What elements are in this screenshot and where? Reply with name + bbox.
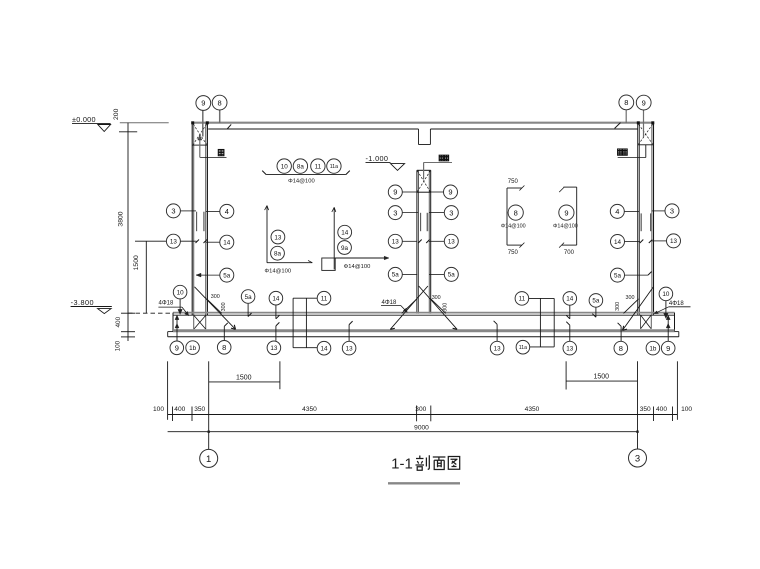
- callout 8 top slab left: [219, 110, 221, 123]
- dim 1500 vertical line: [145, 241, 147, 313]
- tick 400R: [672, 407, 674, 422]
- svg-text:350: 350: [194, 406, 205, 413]
- top slab bottom line left span: [208, 128, 418, 130]
- tick 300 right: [430, 406, 432, 422]
- callout 13 left wall outer: [135, 240, 166, 242]
- svg-text:8a: 8a: [297, 163, 305, 170]
- left wall bottom anchorage box: [193, 315, 195, 329]
- blinding layer right edge: [678, 332, 680, 337]
- dim tick 200: [119, 131, 137, 133]
- extension line far right: [676, 361, 678, 420]
- title underline: [388, 482, 460, 484]
- top slab top chord (heavy grey): [192, 122, 654, 124]
- svg-text:3: 3: [635, 453, 640, 464]
- right wall top ring-beam box: [638, 144, 654, 146]
- callout 1b base bottom left: [186, 341, 200, 355]
- callout 5a above base left: [241, 290, 255, 304]
- leader bar 13 mid-left: [348, 325, 350, 342]
- svg-text:14: 14: [341, 229, 349, 236]
- right wall bottom anchorage box: [640, 315, 642, 329]
- svg-text:3: 3: [670, 207, 674, 216]
- svg-text:11a: 11a: [330, 164, 338, 170]
- leader bar 5a right: [595, 308, 597, 318]
- svg-text:14: 14: [320, 345, 328, 352]
- svg-text:9: 9: [393, 188, 397, 197]
- callout 4 left wall inner: [206, 210, 220, 212]
- svg-text:100: 100: [153, 406, 164, 413]
- right wall inner face lines: [637, 123, 639, 315]
- svg-text:14: 14: [566, 296, 574, 303]
- svg-text:11: 11: [321, 295, 328, 302]
- vertical dimension line: [127, 123, 129, 341]
- tick 300 left: [416, 406, 418, 422]
- dim row first: line: [168, 414, 678, 416]
- svg-text:3: 3: [393, 208, 397, 217]
- dashed level line -3.800: [128, 312, 173, 314]
- dim tick 400: [121, 331, 135, 333]
- svg-text:200: 200: [113, 108, 120, 120]
- dim row second: 9000 line: [168, 431, 638, 433]
- svg-text:1b: 1b: [649, 345, 657, 352]
- callout 13 base bottom left-mid2: [342, 341, 356, 355]
- svg-text:13: 13: [170, 238, 178, 245]
- callout 5a above base right: [589, 294, 603, 308]
- svg-text:9000: 9000: [414, 424, 429, 431]
- callout 13 right wall outer: [652, 240, 667, 242]
- svg-text:300: 300: [221, 302, 227, 311]
- svg-text:-3.800: -3.800: [71, 298, 94, 307]
- callout 3 left wall outer: [180, 210, 196, 212]
- leader bar 9 left: [176, 318, 178, 342]
- svg-text:Φ14@100: Φ14@100: [264, 269, 291, 275]
- svg-text:300: 300: [626, 295, 635, 301]
- svg-text:9: 9: [666, 344, 670, 353]
- svg-text:750: 750: [508, 250, 519, 256]
- svg-text:5a: 5a: [592, 298, 600, 305]
- svg-text:3: 3: [449, 208, 453, 217]
- svg-text:1-1: 1-1: [391, 455, 413, 472]
- svg-text:9: 9: [201, 99, 205, 108]
- left wall inner face lines: [205, 145, 207, 315]
- svg-text:5a: 5a: [392, 272, 400, 279]
- svg-text:13: 13: [494, 345, 502, 352]
- callout 13 base bottom right-mid: [490, 341, 504, 355]
- callout 14 left wall inner: [206, 241, 220, 243]
- svg-text:14: 14: [223, 239, 231, 246]
- callout 14 right wall inner: [625, 241, 641, 243]
- svg-text:350: 350: [640, 406, 651, 413]
- top slab downstand beam above middle wall: [418, 129, 420, 145]
- callout 1b base bottom right: [646, 341, 660, 355]
- grid bubble 1: [200, 449, 218, 467]
- svg-text:13: 13: [448, 239, 456, 246]
- base slab bottom heavy grey band: [173, 329, 675, 332]
- svg-text:Φ14@100: Φ14@100: [288, 178, 315, 184]
- callout 13 base bottom right-mid2: [563, 341, 577, 355]
- slab bar bend mark right: [615, 123, 621, 129]
- leader bar 14 left-top: [275, 305, 277, 319]
- detail bar 13/8a L-shape: [266, 206, 268, 263]
- callout 5a left wall: [196, 274, 220, 276]
- left wall top ring-beam box: [193, 124, 195, 146]
- grid bubble 3: [629, 449, 647, 467]
- svg-text:9: 9: [175, 344, 179, 353]
- svg-text:Φ14@100: Φ14@100: [344, 264, 371, 270]
- svg-text:8: 8: [222, 343, 226, 352]
- svg-text:8: 8: [619, 344, 623, 353]
- svg-text:8: 8: [514, 208, 518, 217]
- base slab right edge: [674, 313, 676, 332]
- detail bar 14/9a with foot: [333, 207, 335, 269]
- svg-text:4: 4: [615, 207, 619, 216]
- svg-text:400: 400: [656, 406, 667, 413]
- callout 10 base left corner: [179, 299, 181, 311]
- svg-text:11: 11: [315, 163, 322, 170]
- left wall haunch: [207, 299, 222, 314]
- dim 1500 bottom-left: [209, 381, 280, 383]
- middle wall bar strokes: [420, 213, 422, 231]
- base slab left edge: [172, 313, 174, 332]
- ring beam label right wall: [618, 149, 622, 155]
- callout 8 base bottom right: [614, 341, 628, 355]
- dim 1500 bottom-right: [566, 380, 637, 382]
- callout 13 base bottom left: [267, 341, 281, 355]
- ring beam label left wall: [218, 150, 224, 156]
- svg-text:4: 4: [225, 207, 229, 216]
- callout 13 middle wall right: [429, 240, 444, 242]
- svg-text:1: 1: [206, 454, 211, 465]
- svg-text:10: 10: [662, 291, 670, 298]
- svg-text:11: 11: [519, 296, 526, 303]
- right corner diagonal bar: [623, 287, 654, 330]
- svg-text:300: 300: [442, 303, 448, 312]
- svg-text:300: 300: [432, 295, 441, 301]
- svg-text:13: 13: [274, 234, 282, 241]
- ring beam label middle wall: [439, 155, 443, 161]
- callout 9 middle wall right: [431, 191, 444, 193]
- callout 3 right wall outer: [652, 210, 666, 212]
- svg-text:9a: 9a: [341, 245, 349, 252]
- svg-text:5a: 5a: [614, 272, 622, 279]
- base slab top thin line: [173, 314, 675, 316]
- svg-text:1500: 1500: [594, 374, 610, 381]
- middle wall right diagonal bar: [419, 286, 457, 329]
- left wall outer face lines: [191, 123, 193, 316]
- leader bar 9 right: [667, 318, 669, 342]
- callout 8 top slab right: [625, 110, 627, 123]
- right wall haunch: [624, 299, 639, 314]
- callout 14 above base left: [269, 291, 283, 305]
- svg-text:13: 13: [392, 239, 400, 246]
- callout 9 base bottom far-left: [170, 341, 184, 355]
- callout 9 right wall top: [643, 110, 645, 137]
- middle wall left haunch: [402, 299, 417, 314]
- callout 5a middle wall right: [430, 273, 445, 275]
- svg-text:4350: 4350: [525, 406, 540, 413]
- svg-text:10: 10: [281, 163, 289, 170]
- middle wall left diagonal bar: [390, 286, 428, 329]
- svg-text:4Φ18: 4Φ18: [669, 301, 684, 307]
- callout 9 base bottom far-right: [661, 341, 675, 355]
- svg-text:400: 400: [115, 316, 122, 327]
- level extension line top: [120, 122, 169, 124]
- leader bar 13 right-bottom: [569, 325, 571, 341]
- svg-text:13: 13: [346, 345, 354, 352]
- svg-text:5a: 5a: [245, 294, 253, 301]
- callout row 10 8a 11 11a for top slab: [277, 159, 291, 173]
- svg-text:13: 13: [670, 238, 678, 245]
- base slab top heavy grey line: [173, 312, 675, 314]
- svg-text:8a: 8a: [274, 250, 282, 257]
- left corner diagonal bar: [195, 287, 236, 330]
- right stirrup staple through base: [539, 298, 541, 347]
- svg-text:3: 3: [171, 207, 175, 216]
- leader bar 8 left: [223, 326, 225, 340]
- grid line 3: [637, 361, 639, 449]
- svg-text:300: 300: [615, 302, 621, 311]
- leader bar 5a left: [247, 304, 249, 317]
- svg-text:9: 9: [448, 188, 452, 197]
- callout 11 above base right: [515, 292, 529, 306]
- tick 350L: [191, 407, 193, 422]
- blinding layer left edge: [167, 332, 169, 337]
- grid line 1: [208, 361, 210, 449]
- svg-text:300: 300: [211, 294, 220, 300]
- svg-text:9: 9: [642, 98, 646, 107]
- svg-text:9: 9: [564, 208, 568, 217]
- svg-text:750: 750: [508, 179, 519, 185]
- callout 5a right wall: [625, 274, 649, 276]
- callout 9 middle wall left: [402, 191, 417, 193]
- callout 4 right wall inner: [624, 210, 639, 212]
- svg-text:700: 700: [564, 250, 575, 256]
- left stirrup staple through base: [292, 298, 294, 348]
- leader bar 13 mid-right: [496, 324, 498, 341]
- svg-text:3800: 3800: [118, 211, 125, 226]
- dim tick 100: [121, 336, 135, 338]
- svg-text:11a: 11a: [519, 345, 527, 351]
- svg-text:10: 10: [177, 289, 185, 296]
- leader bar 14 right-top: [569, 305, 571, 318]
- callout 11a base bottom right-mid: [516, 340, 530, 354]
- callout 10 base right corner: [665, 301, 667, 316]
- callout 14 above base right: [563, 292, 577, 306]
- svg-text:1500: 1500: [236, 375, 252, 382]
- svg-text:13: 13: [270, 345, 278, 352]
- callout 5a middle wall left: [402, 273, 417, 275]
- callout 13 middle wall left: [402, 240, 417, 242]
- blinding layer bottom line: [168, 336, 679, 338]
- svg-text:4350: 4350: [302, 406, 317, 413]
- svg-text:1500: 1500: [133, 255, 140, 270]
- right wall outer face lines: [651, 124, 653, 315]
- callout 9 left wall top: [202, 110, 204, 136]
- detail bracket 9 vertical bar 700: [576, 187, 578, 245]
- left wall bar strokes: [196, 212, 198, 232]
- middle wall face lines: [416, 170, 418, 313]
- leader bar 8 right: [620, 326, 622, 341]
- middle wall right haunch: [431, 299, 446, 314]
- svg-text:4Φ18: 4Φ18: [159, 301, 174, 307]
- slab bar bend mark left: [227, 124, 231, 128]
- tick 350R: [653, 407, 655, 422]
- detail bracket 8 vertical bar 750/750: [506, 188, 508, 245]
- callout 3 middle wall right: [429, 212, 444, 214]
- svg-text:-1.000: -1.000: [366, 154, 389, 163]
- callout 14 base bottom left-mid: [317, 341, 331, 355]
- svg-text:±0.000: ±0.000: [72, 115, 96, 124]
- svg-text:Φ14@100: Φ14@100: [501, 224, 526, 230]
- svg-text:5a: 5a: [223, 272, 231, 279]
- top slab bottom line right span: [430, 128, 638, 130]
- leader bar 13 left-bottom: [275, 326, 277, 341]
- callout 11 above base left: [317, 291, 331, 305]
- svg-text:1b: 1b: [189, 345, 197, 352]
- svg-text:100: 100: [681, 406, 692, 413]
- svg-text:5a: 5a: [448, 272, 456, 279]
- callout 8 base bottom left: [217, 341, 231, 355]
- svg-text:8: 8: [218, 98, 222, 107]
- extension line far left: [167, 361, 169, 420]
- svg-text:300: 300: [415, 406, 426, 413]
- tick 400L: [172, 407, 174, 422]
- middle wall top ring-beam box: [417, 169, 431, 171]
- svg-text:8: 8: [624, 98, 628, 107]
- svg-text:100: 100: [114, 340, 121, 351]
- svg-text:Φ14@100: Φ14@100: [553, 224, 578, 230]
- callout 3 middle wall left: [402, 212, 418, 214]
- svg-text:13: 13: [566, 345, 574, 352]
- svg-text:400: 400: [174, 406, 185, 413]
- right wall bar strokes: [640, 213, 642, 231]
- svg-text:14: 14: [614, 239, 622, 246]
- svg-text:14: 14: [272, 295, 280, 302]
